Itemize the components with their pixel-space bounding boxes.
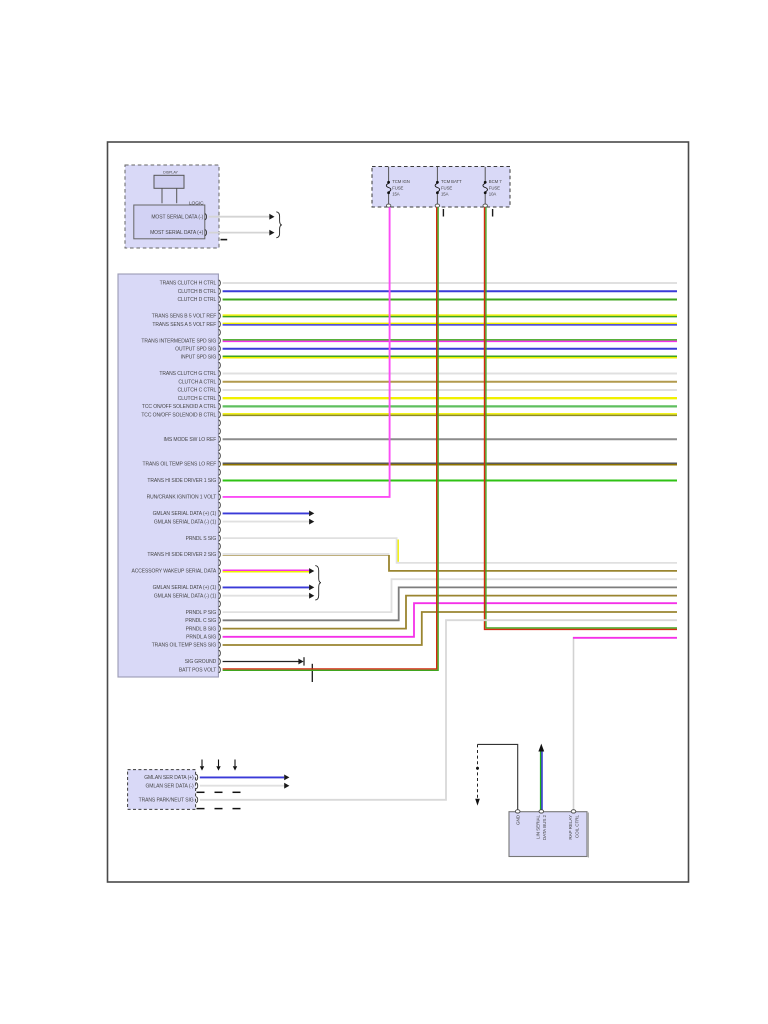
svg-text:CLUTCH A CTRL: CLUTCH A CTRL bbox=[178, 379, 216, 385]
label RAP RELAY COIL CTRL (rotated) bbox=[568, 814, 580, 839]
pin TRANS SENS B 5 VOLT REF bbox=[219, 313, 221, 319]
fuse TCM BATT element symbol bbox=[435, 183, 440, 191]
wire GMLAN SER DATA (-) bbox=[200, 785, 284, 787]
svg-text:INPUT SPD SIG: INPUT SPD SIG bbox=[181, 355, 217, 361]
wire PRNDL S SIG (jogs down) bbox=[223, 538, 677, 563]
arrow LIN SERIAL DATA BUS 2 (up) bbox=[538, 744, 544, 752]
svg-text:MOST SERIAL DATA (+): MOST SERIAL DATA (+) bbox=[150, 230, 204, 236]
svg-text:TRANS CLUTCH H CTRL: TRANS CLUTCH H CTRL bbox=[160, 281, 217, 287]
wire TRANS OIL TEMP SENS SIG (jogs up) bbox=[223, 612, 677, 645]
pin TRANS CLUTCH G CTRL bbox=[219, 370, 221, 376]
pin CLUTCH D CTRL bbox=[219, 296, 221, 302]
pin TRANS PARK/NEUT SIG bbox=[196, 797, 198, 803]
svg-text:CLUTCH B CTRL: CLUTCH B CTRL bbox=[178, 289, 217, 295]
fuse TCM BATT pin at box edge bbox=[435, 204, 439, 207]
arrow GMLAN SERIAL DATA (-) (1) row 38 bbox=[309, 593, 314, 599]
pin TRANS HI SIDE DRIVER 1 SIG bbox=[219, 477, 221, 483]
pin CLUTCH C CTRL bbox=[219, 387, 221, 393]
pin row 21 (unused) bbox=[219, 445, 221, 451]
wire TCC ON/OFF SOLENOID B CTRL (two-color) bbox=[223, 414, 677, 416]
arrow GMLAN SERIAL DATA (+) (1) row 37 bbox=[309, 585, 314, 591]
dashed continuation marks row 2 bbox=[197, 808, 241, 810]
svg-text:ACCESSORY WAKEUP SERIAL DATA: ACCESSORY WAKEUP SERIAL DATA bbox=[131, 569, 216, 575]
pin TRANS OIL TEMP SENS SIG bbox=[219, 642, 221, 648]
fuse BCM 7 pin at box edge bbox=[483, 204, 487, 207]
fuse TCM IGN terminal dot bottom bbox=[387, 191, 390, 194]
wire INPUT SPD SIG (two-color) bbox=[223, 356, 677, 358]
display leg left bbox=[161, 188, 163, 203]
display module box (dashed) bbox=[125, 165, 219, 248]
pin GMLAN SERIAL DATA (+) (1) bbox=[219, 584, 221, 590]
pin OUTPUT SPD SIG bbox=[219, 346, 221, 352]
svg-text:TRANS CLUTCH G CTRL: TRANS CLUTCH G CTRL bbox=[159, 371, 216, 377]
pin row 33 (unused) bbox=[219, 543, 221, 549]
pin IMS MODE SW LO REF bbox=[219, 436, 221, 442]
fuse TCM BATT terminal dot bottom bbox=[436, 191, 439, 194]
svg-text:TRANS SENS B 5 VOLT REF: TRANS SENS B 5 VOLT REF bbox=[152, 314, 216, 320]
fuse BCM 7 terminal dot top bbox=[484, 181, 487, 184]
fuse TCM IGN terminal dot top bbox=[387, 181, 390, 184]
pin RUN/CRANK IGNITION 1 VOLT bbox=[219, 494, 221, 500]
svg-text:PRNDL S SIG: PRNDL S SIG bbox=[186, 536, 217, 542]
pin row 31 (unused) bbox=[219, 527, 221, 533]
pin MOST SERIAL DATA (+) bbox=[205, 230, 207, 236]
pin row 4 (unused) bbox=[219, 305, 221, 311]
pin GMLAN SERIAL DATA (+) (1) bbox=[219, 510, 221, 516]
svg-text:FUSE: FUSE bbox=[392, 185, 403, 190]
pin GMLAN SER DATA (+) bbox=[196, 774, 198, 780]
wire RUN/CRANK IGNITION 1 VOLT (pink, to TCM IGN fuse) bbox=[223, 207, 390, 497]
svg-text:DATA BUS 2: DATA BUS 2 bbox=[542, 814, 547, 840]
brace for MOST serial data pair bbox=[276, 212, 282, 238]
wire ACCESSORY WAKEUP SERIAL DATA (magenta/yellow) bbox=[223, 570, 310, 572]
wire TRANS SENS A 5 VOLT REF (two-color) bbox=[223, 323, 677, 325]
svg-text:TRANS OIL TEMP SENS LO REF: TRANS OIL TEMP SENS LO REF bbox=[143, 462, 217, 468]
pin RAP RELAY COIL CTRL bbox=[571, 810, 576, 813]
svg-text:FUSE: FUSE bbox=[441, 185, 452, 190]
fuse TCM BATT wire bottom bbox=[436, 194, 438, 204]
pin PRNDL C SIG bbox=[219, 617, 221, 623]
pin row 35 (unused) bbox=[219, 560, 221, 566]
wire IMS MODE SW LO REF bbox=[223, 438, 677, 440]
wire GMLAN SERIAL DATA (-) (1) row 38 bbox=[223, 595, 310, 597]
svg-text:OUTPUT SPD SIG: OUTPUT SPD SIG bbox=[175, 347, 216, 353]
pin ACCESSORY WAKEUP SERIAL DATA bbox=[219, 568, 221, 574]
label LIN SERIAL DATA BUS 2 (rotated) bbox=[536, 814, 548, 840]
pin GMLAN SERIAL DATA (-) (1) bbox=[219, 593, 221, 599]
pin PRNDL S SIG bbox=[219, 535, 221, 541]
fuse TCM BATT wire top bbox=[436, 167, 438, 181]
pin row 22 (unused) bbox=[219, 453, 221, 459]
svg-text:TRANS SENS A 5 VOLT REF: TRANS SENS A 5 VOLT REF bbox=[152, 322, 216, 328]
fuse TCM IGN pin at box edge bbox=[386, 204, 390, 207]
fuse BCM 7 element symbol bbox=[483, 183, 488, 191]
wire PRNDL P SIG (jogs up) bbox=[223, 579, 677, 612]
pin CLUTCH B CTRL bbox=[219, 288, 221, 294]
svg-text:TCC ON/OFF SOLENOID B CTRL: TCC ON/OFF SOLENOID B CTRL bbox=[141, 412, 216, 418]
wire TRANS CLUTCH G CTRL bbox=[223, 373, 677, 375]
fuse TCM BATT terminal dot top bbox=[436, 181, 439, 184]
arrow ACCESSORY WAKEUP SERIAL DATA bbox=[309, 568, 314, 574]
svg-text:FUSE: FUSE bbox=[489, 185, 500, 190]
svg-text:GMLAN SERIAL DATA (-) (1): GMLAN SERIAL DATA (-) (1) bbox=[154, 593, 217, 599]
fuse BCM 7 wire top bbox=[484, 167, 486, 181]
svg-text:BCM 7: BCM 7 bbox=[489, 179, 502, 184]
fuse BCM 7 terminal dot bottom bbox=[484, 191, 487, 194]
svg-text:MOST SERIAL DATA (-): MOST SERIAL DATA (-) bbox=[151, 214, 203, 220]
wire RAP RELAY COIL CTRL horizontal (magenta) bbox=[573, 637, 677, 639]
down arrow 3 above connector bbox=[233, 760, 237, 771]
arrow GMLAN SERIAL DATA (-) (1) row 29 bbox=[309, 519, 314, 525]
tick mark below BCM 7 fuse bbox=[492, 209, 494, 217]
fuse TCM IGN wire bottom bbox=[388, 194, 390, 204]
arrow SIG GROUND bbox=[298, 659, 303, 665]
pin PRNDL A SIG bbox=[219, 634, 221, 640]
pin row 40 (unused) bbox=[219, 601, 221, 607]
wire CLUTCH B CTRL bbox=[223, 290, 677, 292]
wire TRANS HI SIDE DRIVER 1 SIG bbox=[223, 480, 677, 482]
pin row 7 (unused) bbox=[219, 329, 221, 335]
wire MOST SERIAL DATA (+) bbox=[209, 232, 270, 234]
drawing frame bbox=[108, 142, 689, 882]
wire PRNDL S SIG yellow stripe on vertical bbox=[397, 540, 399, 562]
RAP module box shadow edge bbox=[587, 813, 589, 858]
wire BATT POS VOLT (red/green, to TCM BATT fuse) bbox=[223, 207, 439, 670]
pin row 28 (unused) bbox=[219, 502, 221, 508]
wire GND (up and left) bbox=[478, 744, 518, 810]
pin BATT POS VOLT bbox=[219, 667, 221, 673]
wire TRANS SENS B 5 VOLT REF (two-color) bbox=[223, 315, 677, 317]
wire GMLAN SERIAL DATA (+) (1) row 37 bbox=[223, 586, 310, 588]
svg-text:GMLAN SERIAL DATA (+) (1): GMLAN SERIAL DATA (+) (1) bbox=[153, 511, 217, 517]
pin INPUT SPD SIG bbox=[219, 354, 221, 360]
svg-text:RAP RELAY: RAP RELAY bbox=[568, 815, 573, 840]
wire TRANS INTERMEDIATE SPD SIG (two-color) bbox=[223, 340, 677, 342]
wire TRANS OIL TEMP SENS LO REF (two-color) bbox=[223, 463, 677, 465]
dashed continuation marks row 1 bbox=[197, 791, 241, 793]
RAP module box bbox=[509, 812, 587, 857]
wire PRNDL C SIG (jogs up) bbox=[223, 587, 677, 620]
svg-text:TCM IGN: TCM IGN bbox=[392, 179, 410, 184]
wire OUTPUT SPD SIG bbox=[223, 348, 677, 350]
pin TRANS SENS A 5 VOLT REF bbox=[219, 321, 221, 327]
svg-text:TRANS PARK/NEUT SIG: TRANS PARK/NEUT SIG bbox=[139, 798, 194, 804]
junction dot on ground drop bbox=[476, 767, 479, 770]
TCM connector box bbox=[118, 274, 218, 677]
logic inner box bbox=[134, 205, 205, 239]
svg-text:TRANS HI SIDE DRIVER 2 SIG: TRANS HI SIDE DRIVER 2 SIG bbox=[147, 552, 216, 558]
svg-text:TCC ON/OFF SOLENOID A CTRL: TCC ON/OFF SOLENOID A CTRL bbox=[142, 404, 217, 410]
down arrow 2 above connector bbox=[216, 760, 220, 771]
svg-text:GND: GND bbox=[516, 814, 521, 825]
arrow MOST SERIAL DATA (-) bbox=[269, 214, 274, 220]
fuse TCM IGN element symbol bbox=[386, 183, 391, 191]
wire TRANS PARK/NEUT SIG (right then up) bbox=[200, 620, 677, 800]
pin TCC ON/OFF SOLENOID A CTRL bbox=[219, 403, 221, 409]
svg-text:PRNDL A SIG: PRNDL A SIG bbox=[186, 635, 216, 641]
tick mark crossing BATT POS VOLT wire bbox=[311, 664, 313, 682]
pin GMLAN SERIAL DATA (-) (1) bbox=[219, 519, 221, 525]
wire TRANS HI SIDE DRIVER 2 SIG (white/olive, jogs down) bbox=[223, 554, 677, 571]
dash marker below logic box bbox=[221, 239, 228, 241]
svg-text:PRNDL B SIG: PRNDL B SIG bbox=[186, 626, 217, 632]
svg-text:TRANS OIL TEMP SENS SIG: TRANS OIL TEMP SENS SIG bbox=[152, 643, 217, 649]
svg-text:SIG GROUND: SIG GROUND bbox=[185, 659, 217, 665]
pin row 26 (unused) bbox=[219, 486, 221, 492]
display screen rect bbox=[154, 175, 184, 188]
wire CLUTCH E CTRL bbox=[223, 397, 677, 399]
ground arrow bbox=[475, 799, 480, 806]
svg-text:CLUTCH E CTRL: CLUTCH E CTRL bbox=[178, 396, 217, 402]
fuse BCM 7 wire bottom bbox=[484, 194, 486, 204]
svg-text:TRANS INTERMEDIATE SPD SIG: TRANS INTERMEDIATE SPD SIG bbox=[141, 338, 216, 344]
dashed ground drop wire bbox=[477, 744, 479, 798]
svg-text:COIL CTRL: COIL CTRL bbox=[574, 814, 579, 838]
svg-text:10A: 10A bbox=[489, 192, 497, 197]
pin row 37 (unused) bbox=[219, 576, 221, 582]
pin TRANS OIL TEMP SENS LO REF bbox=[219, 461, 221, 467]
wire GMLAN SERIAL DATA (-) (1) row 29 bbox=[223, 521, 310, 523]
pin TCC ON/OFF SOLENOID B CTRL bbox=[219, 412, 221, 418]
pin MOST SERIAL DATA (-) bbox=[205, 214, 207, 220]
pin LIN SERIAL DATA BUS 2 bbox=[539, 810, 544, 813]
pin TRANS HI SIDE DRIVER 2 SIG bbox=[219, 551, 221, 557]
pin TRANS CLUTCH H CTRL bbox=[219, 280, 221, 286]
wire CLUTCH D CTRL bbox=[223, 299, 677, 301]
tick mark below TCM BATT fuse bbox=[442, 209, 444, 217]
pin GMLAN SER DATA (-) bbox=[196, 783, 198, 789]
svg-text:15A: 15A bbox=[392, 192, 400, 197]
arrow MOST SERIAL DATA (+) bbox=[269, 230, 274, 236]
svg-text:TRANS HI SIDE DRIVER 1 SIG: TRANS HI SIDE DRIVER 1 SIG bbox=[147, 478, 216, 484]
wire PRNDL B SIG (jogs up) bbox=[223, 596, 677, 629]
svg-text:CLUTCH D CTRL: CLUTCH D CTRL bbox=[178, 297, 217, 303]
pin GND bbox=[515, 810, 520, 813]
fuse block box (dashed) bbox=[372, 167, 510, 208]
wire TCC ON/OFF SOLENOID A CTRL bbox=[223, 405, 677, 407]
wire BCM 7 fuse output (red/green, down and right) bbox=[485, 207, 678, 629]
pin row 24 (unused) bbox=[219, 469, 221, 475]
wire PRNDL A SIG (jogs up) bbox=[223, 603, 677, 637]
pin PRNDL P SIG bbox=[219, 609, 221, 615]
svg-text:GMLAN SER DATA (+): GMLAN SER DATA (+) bbox=[144, 775, 194, 781]
svg-text:IMS MODE SW LO REF: IMS MODE SW LO REF bbox=[163, 437, 216, 443]
pin row 46 (unused) bbox=[219, 650, 221, 656]
svg-text:DISPLAY: DISPLAY bbox=[163, 170, 178, 174]
bar at SIG GROUND arrow tip bbox=[303, 657, 305, 665]
svg-text:GMLAN SERIAL DATA (+) (1): GMLAN SERIAL DATA (+) (1) bbox=[153, 585, 217, 591]
pin TRANS INTERMEDIATE SPD SIG bbox=[219, 338, 221, 344]
pin CLUTCH A CTRL bbox=[219, 379, 221, 385]
wire LIN SERIAL DATA BUS 2 (green/blue) bbox=[541, 751, 542, 811]
svg-text:BATT POS VOLT: BATT POS VOLT bbox=[179, 667, 216, 673]
wire TRANS CLUTCH H CTRL bbox=[223, 282, 677, 284]
pin CLUTCH E CTRL bbox=[219, 395, 221, 401]
fuse TCM IGN wire top bbox=[388, 167, 390, 181]
wire GMLAN SER DATA (+) bbox=[200, 776, 284, 778]
display leg right bbox=[176, 188, 178, 203]
wire CLUTCH A CTRL bbox=[223, 381, 677, 383]
wire SIG GROUND bbox=[223, 661, 299, 663]
wire CLUTCH C CTRL bbox=[223, 389, 677, 391]
svg-text:LIN SERIAL: LIN SERIAL bbox=[536, 814, 541, 838]
svg-text:GMLAN SER DATA (-): GMLAN SER DATA (-) bbox=[145, 783, 194, 789]
svg-text:RUN/CRANK IGNITION 1 VOLT: RUN/CRANK IGNITION 1 VOLT bbox=[147, 495, 217, 501]
svg-text:TCM BATT: TCM BATT bbox=[441, 179, 462, 184]
pin SIG GROUND bbox=[219, 658, 221, 664]
svg-text:PRNDL P SIG: PRNDL P SIG bbox=[186, 610, 217, 616]
brace for accessory wakeup / GMLAN group bbox=[315, 566, 321, 600]
arrow GMLAN SER DATA (-) bbox=[284, 783, 289, 789]
arrow GMLAN SERIAL DATA (+) (1) row 28 bbox=[309, 511, 314, 517]
wire RAP RELAY COIL CTRL vertical bbox=[573, 637, 575, 810]
wire GMLAN SERIAL DATA (+) (1) row 28 bbox=[223, 512, 310, 514]
body harness connector box (dashed) bbox=[128, 770, 196, 810]
svg-text:GMLAN SERIAL DATA (-) (1): GMLAN SERIAL DATA (-) (1) bbox=[154, 519, 217, 525]
pin PRNDL B SIG bbox=[219, 626, 221, 632]
svg-text:CLUTCH C CTRL: CLUTCH C CTRL bbox=[178, 388, 217, 394]
arrow GMLAN SER DATA (+) bbox=[284, 775, 289, 781]
pin row 19 (unused) bbox=[219, 428, 221, 434]
pin row 11 (unused) bbox=[219, 362, 221, 368]
down arrow 1 above connector bbox=[200, 760, 204, 771]
svg-text:PRNDL C SIG: PRNDL C SIG bbox=[185, 618, 216, 624]
pin row 18 (unused) bbox=[219, 420, 221, 426]
svg-text:15A: 15A bbox=[441, 192, 449, 197]
wire MOST SERIAL DATA (-) bbox=[209, 216, 270, 218]
